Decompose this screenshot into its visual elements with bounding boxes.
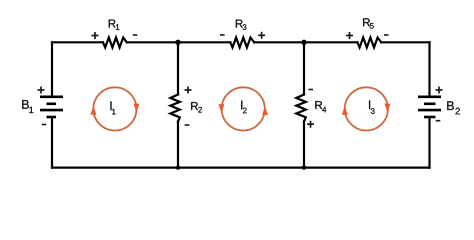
wire top segment R3 to node B [254, 41, 357, 43]
wire top segment R1 to node A [127, 41, 231, 43]
mesh current loop I1 [90, 87, 139, 130]
resistor R4 [296, 95, 306, 122]
label R2 [191, 102, 202, 112]
wire right branch lower [428, 118, 430, 168]
node B junction dot bottom [302, 165, 306, 169]
label R4 [315, 101, 326, 112]
polarity + of R3 [258, 34, 265, 36]
wire right branch upper [428, 42, 430, 96]
label I3 [369, 100, 375, 113]
polarity - of B2 [436, 120, 441, 122]
wire top-right segment [381, 41, 429, 43]
wire middle branch node A upper [177, 42, 179, 94]
node A junction dot bottom [176, 165, 180, 169]
wire left branch upper [51, 42, 53, 96]
resistor R1 [103, 38, 127, 48]
wire top-left segment [52, 41, 103, 43]
node B junction dot top [301, 40, 306, 45]
wire middle branch node B upper [303, 42, 305, 94]
polarity + of R1 [92, 35, 99, 37]
label R5 [363, 18, 374, 28]
polarity - of R5 [384, 34, 389, 36]
polarity - of R4 [308, 89, 313, 91]
wire middle branch node B lower [303, 122, 305, 168]
label R1 [109, 20, 120, 30]
label B1 [22, 100, 33, 113]
label I1 [110, 101, 115, 114]
resistor R2 [170, 95, 180, 122]
polarity - of R1 [133, 34, 138, 36]
resistor R5 [357, 38, 381, 48]
polarity + of R5 [346, 35, 353, 37]
label R3 [236, 20, 247, 30]
wire middle branch node A lower [177, 122, 179, 168]
polarity + of B1 [38, 89, 45, 91]
polarity - of R2 [185, 124, 190, 126]
polarity - of B1 [42, 124, 47, 126]
label I2 [241, 100, 247, 113]
wire left branch lower [51, 118, 53, 168]
resistor R3 [230, 38, 254, 48]
wire bottom rail [52, 167, 430, 169]
mesh current loop I3 [342, 87, 391, 130]
polarity + of B2 [436, 89, 443, 91]
node A junction dot top [175, 40, 180, 45]
battery B2 [418, 97, 441, 117]
polarity + of R4 [307, 123, 314, 125]
polarity - of R3 [220, 34, 225, 36]
polarity + of R2 [185, 89, 192, 91]
label B2 [447, 101, 460, 114]
battery B1 [40, 97, 63, 117]
mesh current loop I2 [218, 87, 268, 130]
